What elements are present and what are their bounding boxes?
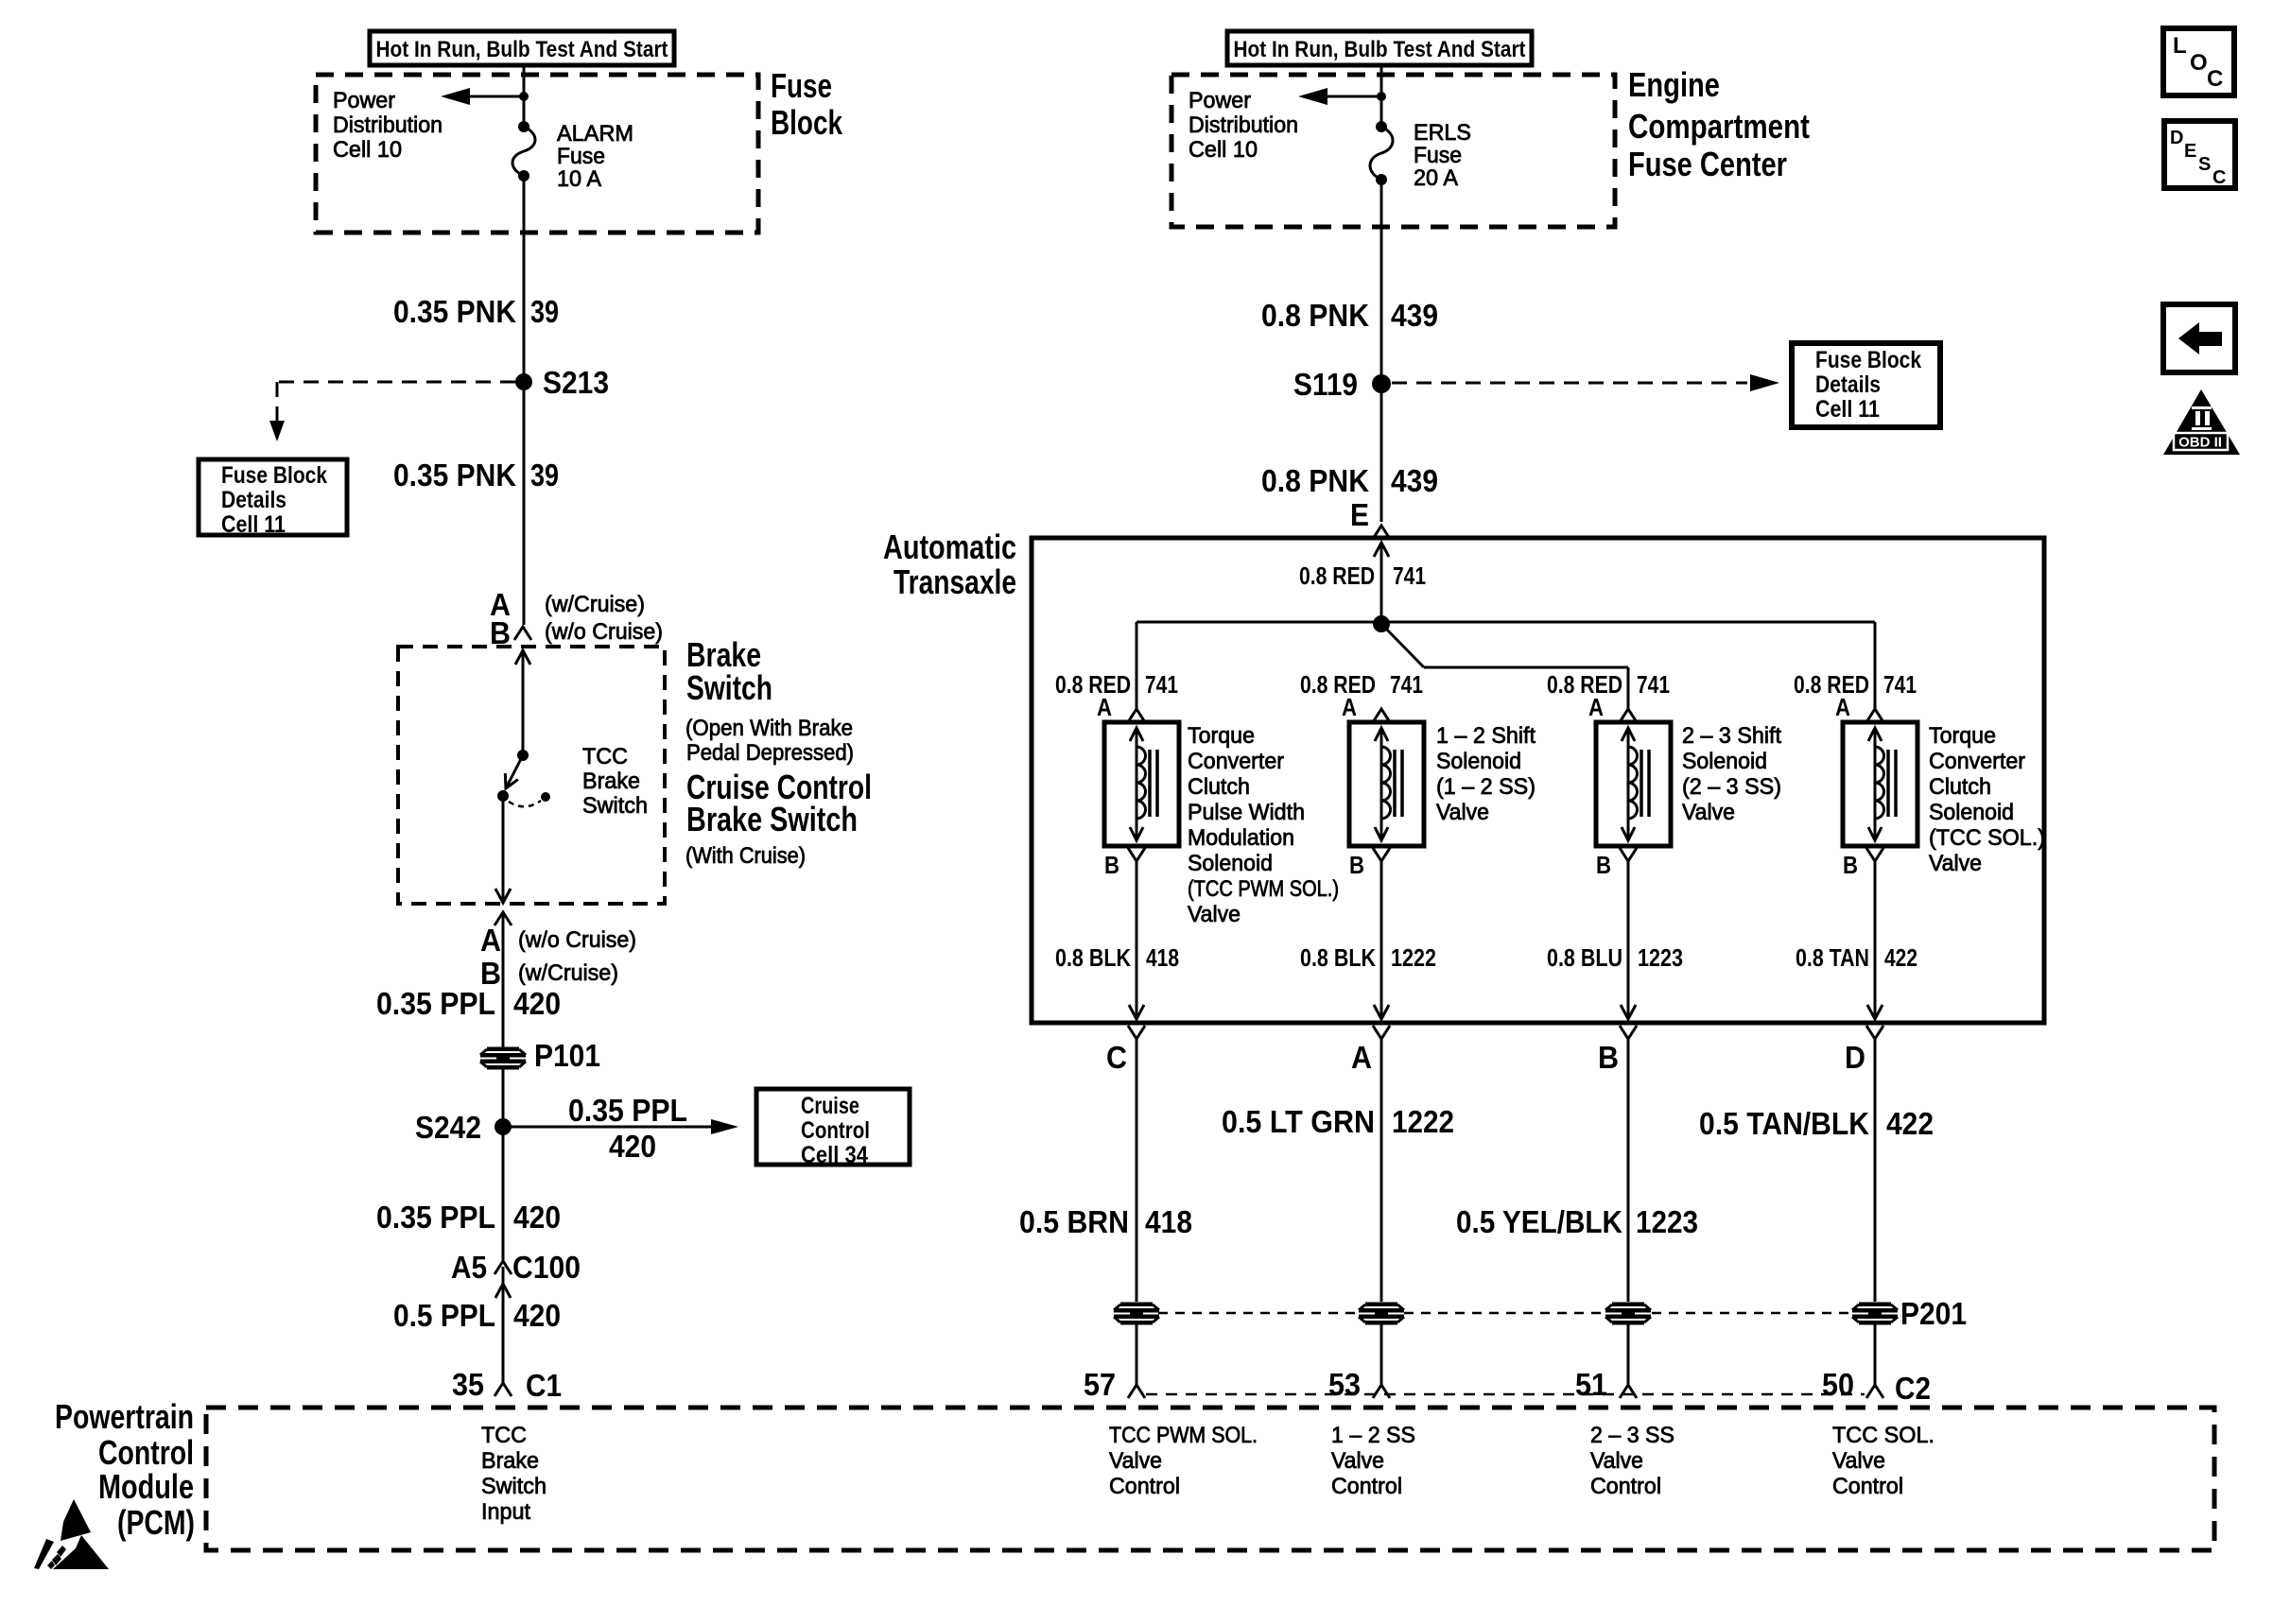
svg-text:0.8 PNK: 0.8 PNK <box>1261 298 1369 333</box>
svg-text:Cruise: Cruise <box>801 1093 859 1119</box>
svg-text:20 A: 20 A <box>1414 165 1458 191</box>
connector P201 dashed link <box>1158 1312 1359 1315</box>
svg-text:1222: 1222 <box>1392 1104 1454 1139</box>
svg-text:Torque: Torque <box>1929 723 1996 749</box>
svg-text:0.5 YEL/BLK: 0.5 YEL/BLK <box>1456 1204 1622 1239</box>
svg-text:B: B <box>1596 851 1611 879</box>
transaxle case pin B chevron <box>1620 1026 1637 1039</box>
svg-text:C: C <box>2207 66 2223 92</box>
connector chevron at brake switch pins A/B <box>514 627 531 640</box>
svg-text:TCC: TCC <box>582 744 628 769</box>
splice node 741 <box>1373 615 1390 632</box>
svg-text:P201: P201 <box>1900 1296 1967 1331</box>
svg-text:Automatic: Automatic <box>883 527 1016 566</box>
svg-text:0.8 RED: 0.8 RED <box>1794 670 1869 699</box>
solenoid 1 pin B chevron <box>1128 848 1145 861</box>
svg-text:C1: C1 <box>526 1368 562 1403</box>
svg-text:A: A <box>1342 693 1357 721</box>
svg-text:0.8 RED: 0.8 RED <box>1547 670 1622 699</box>
solenoid 4 return wire arrow <box>1867 1005 1883 1019</box>
svg-text:B: B <box>1104 851 1119 879</box>
back arrow icon box <box>2163 304 2235 372</box>
splice S213 <box>515 373 532 390</box>
solenoid 2 return wire arrow <box>1374 1005 1389 1019</box>
solenoid 4 pin A chevron <box>1866 709 1883 722</box>
solenoid 1 plunger <box>1136 728 1138 840</box>
svg-text:(w/Cruise): (w/Cruise) <box>545 592 645 617</box>
connector P201 (wire 418) <box>1114 1303 1159 1325</box>
svg-text:0.35 PPL: 0.35 PPL <box>568 1093 687 1128</box>
back arrow icon <box>2178 322 2222 354</box>
svg-text:TCC SOL.: TCC SOL. <box>1832 1423 1935 1448</box>
svg-text:420: 420 <box>609 1129 656 1164</box>
svg-text:418: 418 <box>1146 943 1179 972</box>
svg-text:L: L <box>2173 33 2187 59</box>
svg-text:(TCC SOL.): (TCC SOL.) <box>1929 825 2045 851</box>
svg-text:741: 741 <box>1390 670 1423 699</box>
svg-text:Distribution: Distribution <box>1189 112 1298 138</box>
svg-text:Power: Power <box>1189 88 1251 113</box>
solenoid 3 pin B chevron <box>1620 848 1637 861</box>
solenoid 1 return wire arrow <box>1129 1005 1144 1019</box>
solenoid 3 plunger <box>1627 728 1630 840</box>
TCC brake switch upper contact <box>517 750 529 761</box>
solenoid 4 coil <box>1875 747 1884 819</box>
svg-text:420: 420 <box>513 986 561 1021</box>
cruise control cell 34 box <box>756 1089 910 1165</box>
wire to power distribution arrow (left) <box>470 95 524 98</box>
arrow to cruise control <box>711 1119 738 1134</box>
solenoid 2 coil <box>1381 747 1391 819</box>
svg-text:Control: Control <box>1331 1474 1402 1499</box>
solenoid 1 core bars <box>1148 750 1152 817</box>
svg-text:S: S <box>2198 154 2211 175</box>
wire 39 upper segment <box>523 176 526 382</box>
svg-text:Details: Details <box>221 487 286 513</box>
solenoid 4 plunger <box>1874 728 1877 840</box>
solenoid 2 plunger <box>1380 728 1383 840</box>
DESC icon box <box>2164 121 2235 188</box>
svg-text:741: 741 <box>1393 561 1426 590</box>
PCM pin 57 chevron <box>1128 1385 1145 1398</box>
transaxle case pin D chevron <box>1866 1026 1883 1039</box>
svg-text:39: 39 <box>530 294 559 329</box>
svg-text:50: 50 <box>1822 1367 1854 1402</box>
svg-text:C2: C2 <box>1895 1371 1931 1406</box>
svg-text:Solenoid: Solenoid <box>1682 749 1767 774</box>
PCM pin 50 chevron <box>1866 1385 1883 1398</box>
svg-text:Hot In Run, Bulb Test And Star: Hot In Run, Bulb Test And Start <box>1234 37 1526 62</box>
solenoid 2 core bars <box>1393 750 1397 817</box>
wire 1222 to PCM <box>1380 1324 1383 1385</box>
svg-text:Control: Control <box>98 1433 194 1472</box>
svg-text:A: A <box>1097 693 1112 721</box>
svg-text:Switch: Switch <box>481 1474 547 1499</box>
svg-text:1 – 2 Shift: 1 – 2 Shift <box>1436 723 1536 749</box>
svg-text:53: 53 <box>1328 1367 1361 1402</box>
wire 1223 to PCM <box>1627 1324 1630 1385</box>
wire 422 to PCM <box>1874 1324 1877 1385</box>
solenoid 3 box <box>1596 722 1671 846</box>
svg-text:2 – 3 SS: 2 – 3 SS <box>1590 1423 1674 1448</box>
svg-text:Brake: Brake <box>481 1448 539 1474</box>
svg-text:(TCC PWM SOL.): (TCC PWM SOL.) <box>1188 876 1339 902</box>
svg-text:D: D <box>2170 128 2183 148</box>
svg-text:P101: P101 <box>534 1038 600 1073</box>
svg-text:(1 – 2 SS): (1 – 2 SS) <box>1436 774 1536 800</box>
arrow to fuse block details (right) <box>1750 374 1779 391</box>
svg-text:(Open With Brake: (Open With Brake <box>685 716 853 741</box>
PCM pin 51 chevron <box>1620 1385 1637 1398</box>
svg-text:0.35 PNK: 0.35 PNK <box>393 294 516 329</box>
svg-text:0.35 PPL: 0.35 PPL <box>376 1200 495 1235</box>
arrow into brake switch <box>515 650 530 665</box>
svg-text:(2 – 3 SS): (2 – 3 SS) <box>1682 774 1781 800</box>
svg-text:B: B <box>1349 851 1364 879</box>
svg-text:420: 420 <box>513 1200 561 1235</box>
fuse ERLS 20 A <box>1376 121 1387 132</box>
svg-text:A: A <box>1835 693 1850 721</box>
svg-text:420: 420 <box>513 1298 561 1333</box>
solenoid 1 box <box>1104 722 1179 846</box>
svg-text:OBD II: OBD II <box>2178 435 2222 451</box>
svg-text:439: 439 <box>1391 463 1438 498</box>
svg-text:Control: Control <box>801 1117 870 1144</box>
connector chevron below brake switch <box>495 912 512 925</box>
connector C1 chevron <box>495 1383 512 1396</box>
svg-text:Brake: Brake <box>582 769 640 794</box>
svg-text:TCC: TCC <box>481 1423 527 1448</box>
svg-text:Distribution: Distribution <box>333 112 442 138</box>
engine compartment fuse center dashed enclosure <box>1171 75 1615 227</box>
svg-text:Valve: Valve <box>1331 1448 1384 1474</box>
svg-text:422: 422 <box>1886 1106 1934 1141</box>
splice S119 <box>1372 374 1391 393</box>
svg-text:Converter: Converter <box>1188 749 1284 774</box>
svg-text:Brake Switch: Brake Switch <box>686 800 858 838</box>
svg-text:0.5 TAN/BLK: 0.5 TAN/BLK <box>1699 1106 1869 1141</box>
svg-text:C: C <box>2212 167 2226 188</box>
svg-text:C100: C100 <box>512 1250 581 1285</box>
svg-text:0.8 RED: 0.8 RED <box>1300 670 1376 699</box>
automatic transaxle box <box>1032 538 2044 1023</box>
transaxle case pin C chevron <box>1128 1026 1145 1039</box>
svg-text:Cell 34: Cell 34 <box>801 1142 868 1168</box>
solenoid 1 coil <box>1136 747 1146 819</box>
wire from hot feed to fuse ALARM <box>523 65 526 127</box>
ESD sensitivity symbol <box>34 1499 109 1569</box>
fuse ALARM 10 A <box>518 121 529 132</box>
svg-text:741: 741 <box>1145 670 1178 699</box>
fuse block dashed enclosure <box>316 75 758 233</box>
svg-text:E: E <box>1350 497 1369 532</box>
svg-text:0.8 BLK: 0.8 BLK <box>1055 943 1131 972</box>
hot feed label box (left) <box>370 31 674 65</box>
svg-text:0.5 LT GRN: 0.5 LT GRN <box>1222 1104 1375 1139</box>
OBD II icon triangle <box>2163 389 2240 455</box>
fuse block details box (left) <box>199 459 347 535</box>
svg-text:Cell 10: Cell 10 <box>1189 137 1258 163</box>
node - power distribution branch (left) <box>519 92 529 101</box>
svg-text:Valve: Valve <box>1436 800 1489 825</box>
svg-text:51: 51 <box>1575 1367 1607 1402</box>
svg-text:422: 422 <box>1884 943 1917 972</box>
svg-text:10 A: 10 A <box>557 166 601 192</box>
svg-text:1 – 2 SS: 1 – 2 SS <box>1331 1423 1415 1448</box>
hot feed label box (right) <box>1227 31 1532 65</box>
svg-text:0.35 PPL: 0.35 PPL <box>376 986 495 1021</box>
connector C100 chevron <box>495 1261 512 1274</box>
solenoid 4 pin B chevron <box>1866 848 1883 861</box>
arrow into transaxle at E <box>1374 543 1389 557</box>
dashed reference wire from S213 <box>277 381 515 384</box>
brake switch dashed enclosure <box>398 647 665 904</box>
svg-text:35: 35 <box>452 1367 484 1402</box>
svg-text:1222: 1222 <box>1391 943 1436 972</box>
svg-text:418: 418 <box>1145 1204 1192 1239</box>
transaxle case pin A chevron <box>1373 1026 1390 1039</box>
svg-text:Valve: Valve <box>1682 800 1735 825</box>
svg-text:D: D <box>1845 1040 1865 1075</box>
wire from hot feed to fuse ERLS <box>1380 65 1383 127</box>
svg-text:S119: S119 <box>1293 367 1358 402</box>
solenoid 4 core bars <box>1886 750 1890 817</box>
svg-text:0.8 TAN: 0.8 TAN <box>1796 943 1869 972</box>
svg-text:Transaxle: Transaxle <box>894 562 1016 601</box>
connector P201 (wire 422) <box>1852 1303 1898 1325</box>
solenoid 2 box <box>1349 722 1424 846</box>
svg-text:S242: S242 <box>415 1110 481 1145</box>
solenoid 3 coil <box>1628 747 1638 819</box>
svg-text:A: A <box>1351 1040 1372 1075</box>
svg-text:741: 741 <box>1883 670 1917 699</box>
svg-text:Solenoid: Solenoid <box>1436 749 1521 774</box>
svg-text:E: E <box>2184 141 2196 162</box>
arrow to power distribution (right) <box>1298 88 1327 105</box>
TCC brake switch blade <box>507 755 523 786</box>
solenoid 2 pin B chevron <box>1373 848 1390 861</box>
node - power distribution branch (right) <box>1377 92 1386 101</box>
svg-text:Torque: Torque <box>1188 723 1255 749</box>
svg-text:Control: Control <box>1590 1474 1661 1499</box>
svg-text:Valve: Valve <box>1929 851 1982 876</box>
solenoid 4 box <box>1843 722 1917 846</box>
wire 39 lower segment <box>523 382 526 625</box>
svg-text:Valve: Valve <box>1590 1448 1643 1474</box>
svg-text:0.5 BRN: 0.5 BRN <box>1019 1204 1129 1239</box>
svg-text:ERLS: ERLS <box>1414 120 1471 146</box>
svg-text:Cell 11: Cell 11 <box>221 511 286 538</box>
svg-text:Details: Details <box>1815 371 1881 398</box>
TCC brake switch alternate contact <box>541 792 550 802</box>
svg-text:Powertrain: Powertrain <box>55 1397 194 1436</box>
svg-text:A5: A5 <box>451 1250 487 1285</box>
svg-text:Converter: Converter <box>1929 749 2025 774</box>
connector chevron at pin E <box>1373 526 1390 539</box>
connector P101 <box>480 1047 526 1070</box>
svg-text:Control: Control <box>1832 1474 1903 1499</box>
connector C2 dashed line <box>1146 1393 1865 1396</box>
powertrain control module dashed box <box>206 1408 2214 1550</box>
svg-text:Engine: Engine <box>1628 65 1720 104</box>
svg-text:C: C <box>1106 1040 1127 1075</box>
arrow out of brake switch box <box>495 889 511 903</box>
svg-text:O: O <box>2190 50 2208 76</box>
svg-text:Valve: Valve <box>1109 1448 1162 1474</box>
wire 418 to PCM <box>1136 1324 1138 1385</box>
solenoid 2 pin A chevron <box>1373 709 1390 722</box>
svg-text:Pulse Width: Pulse Width <box>1188 800 1305 825</box>
svg-text:0.5 PPL: 0.5 PPL <box>393 1298 495 1333</box>
OBD II icon numeral <box>2192 406 2212 430</box>
svg-text:Power: Power <box>333 88 395 113</box>
svg-text:(w/o Cruise): (w/o Cruise) <box>545 619 663 645</box>
distribution bus 741 <box>1136 621 1875 624</box>
svg-text:Control: Control <box>1109 1474 1180 1499</box>
svg-text:39: 39 <box>530 458 559 492</box>
wire S242 branch to cruise control <box>503 1126 714 1129</box>
wire 420 segment to C1 <box>502 1267 505 1383</box>
svg-text:1223: 1223 <box>1636 1204 1698 1239</box>
solenoid 3 pin A chevron <box>1620 709 1637 722</box>
svg-text:57: 57 <box>1084 1367 1116 1402</box>
svg-text:Fuse Block: Fuse Block <box>221 462 327 489</box>
svg-text:ALARM: ALARM <box>557 121 633 147</box>
wire 420 segment above P101 <box>502 912 505 1047</box>
svg-text:741: 741 <box>1637 670 1670 699</box>
svg-text:Clutch: Clutch <box>1188 774 1250 800</box>
svg-text:Valve: Valve <box>1832 1448 1885 1474</box>
branch wire to 2-3 shift solenoid <box>1381 624 1424 667</box>
solenoid 3 return wire arrow <box>1621 1005 1636 1019</box>
svg-text:0.8 BLU: 0.8 BLU <box>1547 943 1622 972</box>
svg-text:Fuse: Fuse <box>1414 143 1462 168</box>
svg-text:0.8 PNK: 0.8 PNK <box>1261 463 1369 498</box>
svg-text:(PCM): (PCM) <box>117 1503 195 1542</box>
svg-text:1223: 1223 <box>1638 943 1683 972</box>
svg-text:Fuse: Fuse <box>771 66 832 105</box>
svg-text:B: B <box>1843 851 1858 879</box>
svg-text:Block: Block <box>771 103 843 142</box>
svg-text:0.8 RED: 0.8 RED <box>1055 670 1131 699</box>
svg-text:0.8 RED: 0.8 RED <box>1299 561 1375 590</box>
svg-text:Input: Input <box>481 1499 530 1525</box>
wire from switch to box exit <box>502 796 505 901</box>
connector P201 (wire 1223) <box>1605 1303 1651 1325</box>
dashed reference wire from S119 <box>1392 382 1747 385</box>
wire 420 segment below P101 <box>502 1068 505 1261</box>
svg-text:TCC PWM SOL.: TCC PWM SOL. <box>1109 1423 1258 1448</box>
svg-text:Solenoid: Solenoid <box>1929 800 2014 825</box>
svg-text:Solenoid: Solenoid <box>1188 851 1273 876</box>
svg-text:Valve: Valve <box>1188 902 1241 927</box>
TCC brake switch throw arc <box>509 801 541 806</box>
svg-text:Pedal Depressed): Pedal Depressed) <box>686 740 854 766</box>
arrow to fuse block details (left) <box>269 421 285 441</box>
svg-text:Switch: Switch <box>686 668 772 707</box>
splice S242 <box>495 1118 512 1135</box>
fuse block details box (right) <box>1792 343 1940 427</box>
arrow into C100 <box>495 1284 511 1298</box>
wire to power distribution arrow (right) <box>1327 95 1381 98</box>
PCM pin 53 chevron <box>1373 1385 1390 1398</box>
svg-text:0.8 BLK: 0.8 BLK <box>1300 943 1376 972</box>
svg-text:Hot In Run, Bulb Test And Star: Hot In Run, Bulb Test And Start <box>376 37 668 62</box>
TCC brake switch lower contact <box>497 790 509 802</box>
solenoid 1 pin A chevron <box>1128 709 1145 722</box>
svg-text:2 – 3 Shift: 2 – 3 Shift <box>1682 723 1781 749</box>
svg-text:Switch: Switch <box>582 793 648 819</box>
svg-text:0.35 PNK: 0.35 PNK <box>393 458 516 492</box>
connector P201 (wire 1222) <box>1359 1303 1404 1325</box>
svg-text:Compartment: Compartment <box>1628 107 1810 146</box>
svg-text:Modulation: Modulation <box>1188 825 1294 851</box>
svg-text:Fuse Block: Fuse Block <box>1815 347 1921 373</box>
svg-text:S213: S213 <box>543 365 609 400</box>
arrow to power distribution (left) <box>441 88 470 105</box>
wire 439 segment <box>1380 180 1383 522</box>
solenoid 3 core bars <box>1640 750 1643 817</box>
svg-text:Fuse Center: Fuse Center <box>1628 145 1787 183</box>
svg-text:A: A <box>480 923 501 958</box>
LOC icon box <box>2163 28 2234 95</box>
svg-text:Clutch: Clutch <box>1929 774 1991 800</box>
svg-text:Fuse: Fuse <box>557 144 605 169</box>
svg-text:(w/o Cruise): (w/o Cruise) <box>518 927 636 953</box>
svg-text:B: B <box>1598 1040 1619 1075</box>
svg-text:439: 439 <box>1391 298 1438 333</box>
OBD II icon caption <box>2174 433 2228 450</box>
svg-text:Cell 11: Cell 11 <box>1815 396 1880 423</box>
svg-text:(w/Cruise): (w/Cruise) <box>518 960 618 986</box>
svg-text:Cell 10: Cell 10 <box>333 137 402 163</box>
svg-text:Module: Module <box>98 1467 194 1506</box>
svg-text:A: A <box>1588 693 1604 721</box>
svg-text:(With Cruise): (With Cruise) <box>685 843 806 869</box>
